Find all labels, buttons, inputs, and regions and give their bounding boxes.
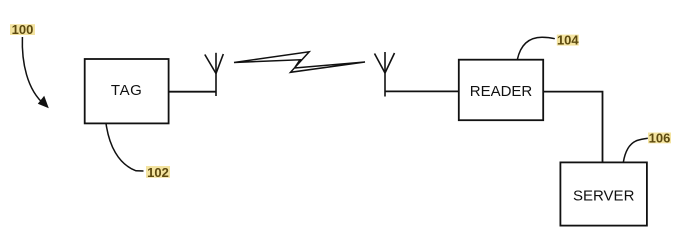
wire READER to SERVER [543,92,602,163]
svg-text:102: 102 [147,165,169,180]
leader 102 [106,123,144,171]
svg-text:TAG: TAG [111,82,143,99]
leader 104 [517,37,555,60]
antenna left [205,53,224,96]
reader box (READER) [459,60,543,120]
svg-text:READER: READER [470,83,533,100]
svg-text:100: 100 [12,22,34,37]
leader 106 [623,138,648,162]
tag box (TAG) [85,59,169,123]
wire TAG to left antenna [169,91,216,93]
svg-text:SERVER: SERVER [573,187,635,204]
label 100 [10,22,35,37]
label 104 [557,32,580,47]
label 102 [146,165,170,180]
wire right antenna to READER [385,90,459,92]
lightning bolt (RF link) [234,52,365,73]
label 106 [648,130,671,145]
arrow from 100 to system [22,37,44,105]
svg-text:106: 106 [649,130,671,145]
server box (SERVER) [560,162,647,225]
antenna right [375,52,395,97]
svg-text:104: 104 [557,32,579,47]
